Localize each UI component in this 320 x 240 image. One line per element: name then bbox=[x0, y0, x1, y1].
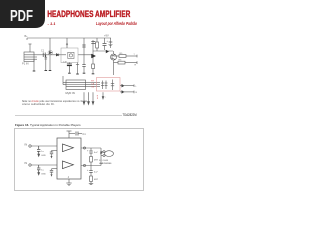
ground arrow bbox=[51, 174, 53, 177]
wire input bbox=[37, 54, 50, 56]
op-amp A2 bbox=[63, 161, 74, 169]
ground tick bbox=[49, 70, 52, 72]
dashed box bbox=[61, 48, 78, 63]
IC U1 inner bbox=[68, 52, 74, 58]
op-amp A1 bbox=[63, 144, 74, 152]
wire mid continue bbox=[78, 54, 92, 56]
capacitor C11 bbox=[37, 146, 40, 154]
arrow labeled bbox=[102, 92, 104, 99]
zobel chain 1 capacitor bbox=[89, 148, 92, 157]
capacitor Cx top bbox=[91, 42, 95, 44]
ground bbox=[89, 184, 93, 185]
figure frame bbox=[15, 129, 144, 191]
red highlight box bbox=[97, 78, 121, 92]
pin2 net cap bbox=[50, 151, 57, 157]
svg-text:HEADPHONES AMPLIFIER: HEADPHONES AMPLIFIER bbox=[47, 9, 130, 19]
pin 7 supply bbox=[67, 131, 72, 138]
wire vertical x84 bbox=[83, 38, 85, 65]
separator rule bbox=[15, 115, 122, 117]
capacitor C12 bbox=[37, 165, 40, 173]
wire top rail schematic1 bbox=[27, 37, 111, 39]
wire connector down bbox=[33, 59, 35, 70]
input IN2 terminal bbox=[29, 164, 57, 166]
diode D3 out bbox=[120, 90, 134, 93]
capacitor C3 bbox=[82, 45, 85, 47]
IC U3 TDA2822 box bbox=[57, 138, 81, 179]
arrow gnd 1 bbox=[83, 92, 85, 104]
connector J1 bbox=[24, 52, 37, 62]
svg-text:Layout por Alfredo Padrão: Layout por Alfredo Padrão bbox=[96, 21, 137, 26]
capacitor C4 bbox=[82, 65, 85, 67]
IC U2 box bbox=[63, 80, 86, 89]
transistor Q1 bbox=[48, 50, 53, 55]
resistor drop bbox=[45, 55, 48, 70]
capacitor C10 supply bbox=[69, 132, 82, 136]
output wire 2 bbox=[81, 164, 101, 166]
svg-text:PDF: PDF bbox=[10, 8, 33, 25]
diode D2 out bbox=[120, 84, 134, 87]
zobel chain 2 resistor bbox=[90, 176, 93, 184]
ground arrow bbox=[38, 173, 47, 176]
PDF badge bbox=[0, 0, 149, 198]
transistor Q3 blob bbox=[106, 50, 109, 53]
ground arrow bbox=[51, 156, 53, 159]
capacitor C9 bbox=[111, 80, 114, 91]
pin 4 gnd bbox=[66, 179, 71, 186]
node supply terminal bbox=[27, 38, 32, 52]
capacitor C6 polarized bbox=[109, 38, 113, 48]
arrow gnd 3 bbox=[92, 92, 94, 104]
resistor R4 vertical bbox=[96, 42, 99, 48]
arrow gnd 2 bbox=[88, 92, 90, 104]
ground arrow bbox=[38, 154, 47, 157]
transistor Q4 bbox=[111, 54, 117, 60]
pin6 net cap bbox=[50, 169, 57, 175]
resistor R6 out bbox=[114, 61, 138, 64]
pin stub bbox=[66, 38, 68, 48]
output wire 1 bbox=[81, 147, 101, 149]
transistor Q2 bbox=[92, 54, 96, 58]
ground tick bbox=[45, 70, 48, 72]
ground tick bbox=[33, 70, 36, 72]
resistor R5 out bbox=[114, 55, 138, 58]
wire drop to IC2 bbox=[62, 76, 64, 85]
jack wires bbox=[101, 148, 103, 166]
diode D1 bbox=[56, 54, 59, 57]
capacitor C5 bbox=[103, 38, 107, 50]
wire vertical x113 bbox=[113, 60, 115, 75]
wire vertical x50 bbox=[49, 38, 51, 70]
wires U2 to red box bbox=[86, 82, 101, 86]
wire vertical x93 bbox=[92, 40, 94, 64]
input IN1 terminal bbox=[29, 145, 57, 147]
headphone jack bbox=[103, 151, 113, 157]
capacitor C7 bbox=[101, 81, 104, 90]
zobel chain 2 capacitor bbox=[89, 166, 92, 177]
capacitor C1 bbox=[43, 53, 45, 58]
capacitor C8 bbox=[105, 81, 108, 90]
diode jack bbox=[100, 151, 103, 154]
capacitor C2 polarized bbox=[67, 63, 72, 73]
zobel chain 1 resistor bbox=[90, 157, 93, 166]
wire h mid bbox=[93, 50, 113, 52]
resistor R2 bbox=[76, 63, 79, 74]
resistor R3 bbox=[92, 64, 95, 69]
svg-text:- 1.1: - 1.1 bbox=[48, 21, 57, 26]
wire bbox=[50, 54, 66, 56]
